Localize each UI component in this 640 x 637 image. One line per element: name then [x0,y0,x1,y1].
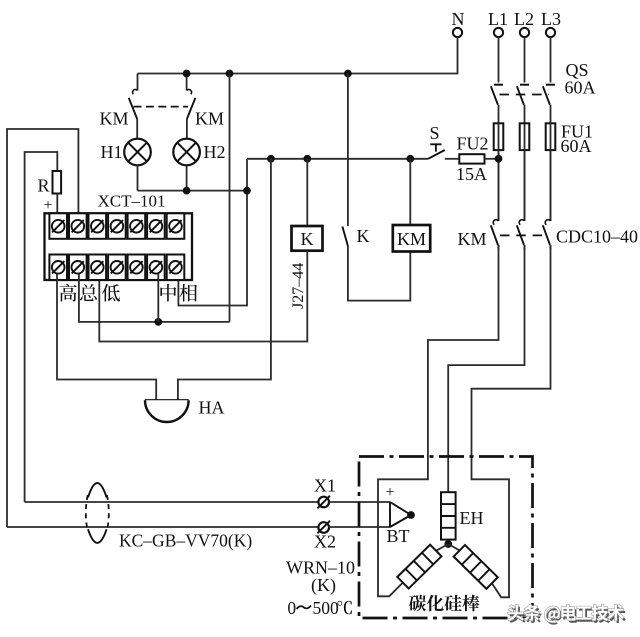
wire zong to N riser [79,274,230,322]
svg-text:KM: KM [195,109,224,129]
svg-text:X2: X2 [314,532,336,552]
wire X2 to BT [329,526,390,528]
svg-text:L3: L3 [541,9,561,29]
node L1 terminal [488,9,508,37]
junction dot star point [444,540,452,548]
furnace enclosure (dash-dot) [359,457,533,619]
wire to X1 [25,501,319,503]
svg-text:S: S [429,123,439,143]
svg-text:EH: EH [460,508,484,528]
wire R to terminal [56,194,58,221]
wire N to top bus [138,37,458,73]
junction dot zhong-zong [154,318,162,326]
wire lamps bottom [138,190,248,192]
contactor KM main contacts 3-pole [491,150,551,250]
wire K contact to KM coil [348,246,410,301]
svg-text:K: K [301,229,314,249]
wire L2 phase to EH [448,245,524,492]
wire to X2 [7,526,319,528]
wire L1 phase to furnace [378,245,499,596]
svg-text:KC–GB–VV70(K): KC–GB–VV70(K) [119,531,252,551]
svg-text:H2: H2 [204,142,226,162]
node L2 terminal [514,9,534,37]
cable sheath symbol [86,483,109,543]
wire gao to bell left [57,274,156,400]
wire control bus [247,158,428,160]
lamp H2 [173,119,200,191]
svg-text:0: 0 [287,598,296,618]
wire X1 riser to R [25,152,58,502]
svg-text:XCT–101: XCT–101 [98,192,166,211]
watermark toutiao [510,607,626,625]
relay contact K [342,227,348,247]
svg-text:KM: KM [397,229,426,249]
label 0-500C [287,598,351,618]
svg-text:KM: KM [99,109,128,129]
junction dot H2 top [183,70,191,78]
wire N to terminal zong [229,74,231,322]
svg-text:X1: X1 [314,476,336,496]
svg-text:BT: BT [386,526,409,546]
label gao-zong-di-zhong-xiang [59,284,197,302]
thermocouple BT [390,502,415,527]
svg-text:60A: 60A [565,77,596,97]
svg-text:N: N [452,9,465,29]
junction dot KM coil branch [406,155,414,163]
wire K coil to di terminal [99,251,307,342]
terminal X2 [317,521,330,534]
svg-text:H1: H1 [101,142,123,162]
wire X1 to BT [329,501,390,503]
heating element left rod [397,545,441,589]
relay coil K box [292,226,323,251]
wire control to K coil [306,159,308,226]
contactor KM aux contact (H1) [129,74,138,120]
svg-text:R: R [37,176,49,196]
terminal X1 [317,496,330,509]
svg-text:+: + [43,197,52,214]
svg-text:(K): (K) [311,575,336,596]
junction dot bell branch [267,155,275,163]
QS linkage dashed [500,94,550,96]
junction dot K coil branch [303,155,311,163]
svg-text:+: + [385,484,394,501]
svg-text:60A: 60A [561,136,592,156]
junction dot FU2-L1 [495,155,503,163]
node L3 terminal [541,9,561,37]
terminal block XCT-101 [45,213,193,280]
wire bell right to control [178,159,271,400]
contactor KM aux contact (H2) [187,74,196,120]
KM main linkage dashed [500,234,547,236]
wire star to right rod [448,544,460,551]
lamp H1 [124,119,151,191]
label tan-hua-gui-bang [409,595,479,612]
heating element right rod [454,545,498,589]
junction dot N-transformer [226,70,234,78]
wire star to left rod [436,544,448,551]
svg-text:CDC10–40: CDC10–40 [556,227,638,247]
wire control to KM coil [409,159,411,225]
contactor coil KM box [393,225,430,252]
wire xiang riser [178,159,247,306]
svg-text:KM: KM [457,229,486,249]
switch S [428,123,445,159]
svg-text:HA: HA [199,398,225,418]
switch QS 3-pole [491,37,555,123]
svg-text:FU2: FU2 [456,134,488,154]
svg-text:L1: L1 [488,9,508,29]
junction dot K branch top [344,70,352,78]
label FU1 60A [561,122,594,157]
junction dot H2 bottom [183,187,191,195]
resistor R [53,171,62,194]
svg-text:500: 500 [313,598,340,618]
wire L3 phase to furnace [472,245,551,597]
svg-text:K: K [357,226,370,246]
svg-text:J27–44: J27–44 [290,263,307,309]
label QS 60A [565,60,596,97]
bell HA [145,400,189,422]
wire X2 riser to zong [7,129,78,527]
KM aux linkage dashed [134,106,189,108]
wire K contact riser [347,74,349,227]
wire zhong down [157,274,159,322]
svg-text:15A: 15A [456,164,487,184]
heating element EH (top rod) [441,492,456,543]
fuse FU2 [445,154,499,163]
junction dot lamps-xiang [243,187,251,195]
fuse FU1 3x [494,123,556,221]
node N terminal [452,9,465,37]
svg-text:L2: L2 [514,9,534,29]
